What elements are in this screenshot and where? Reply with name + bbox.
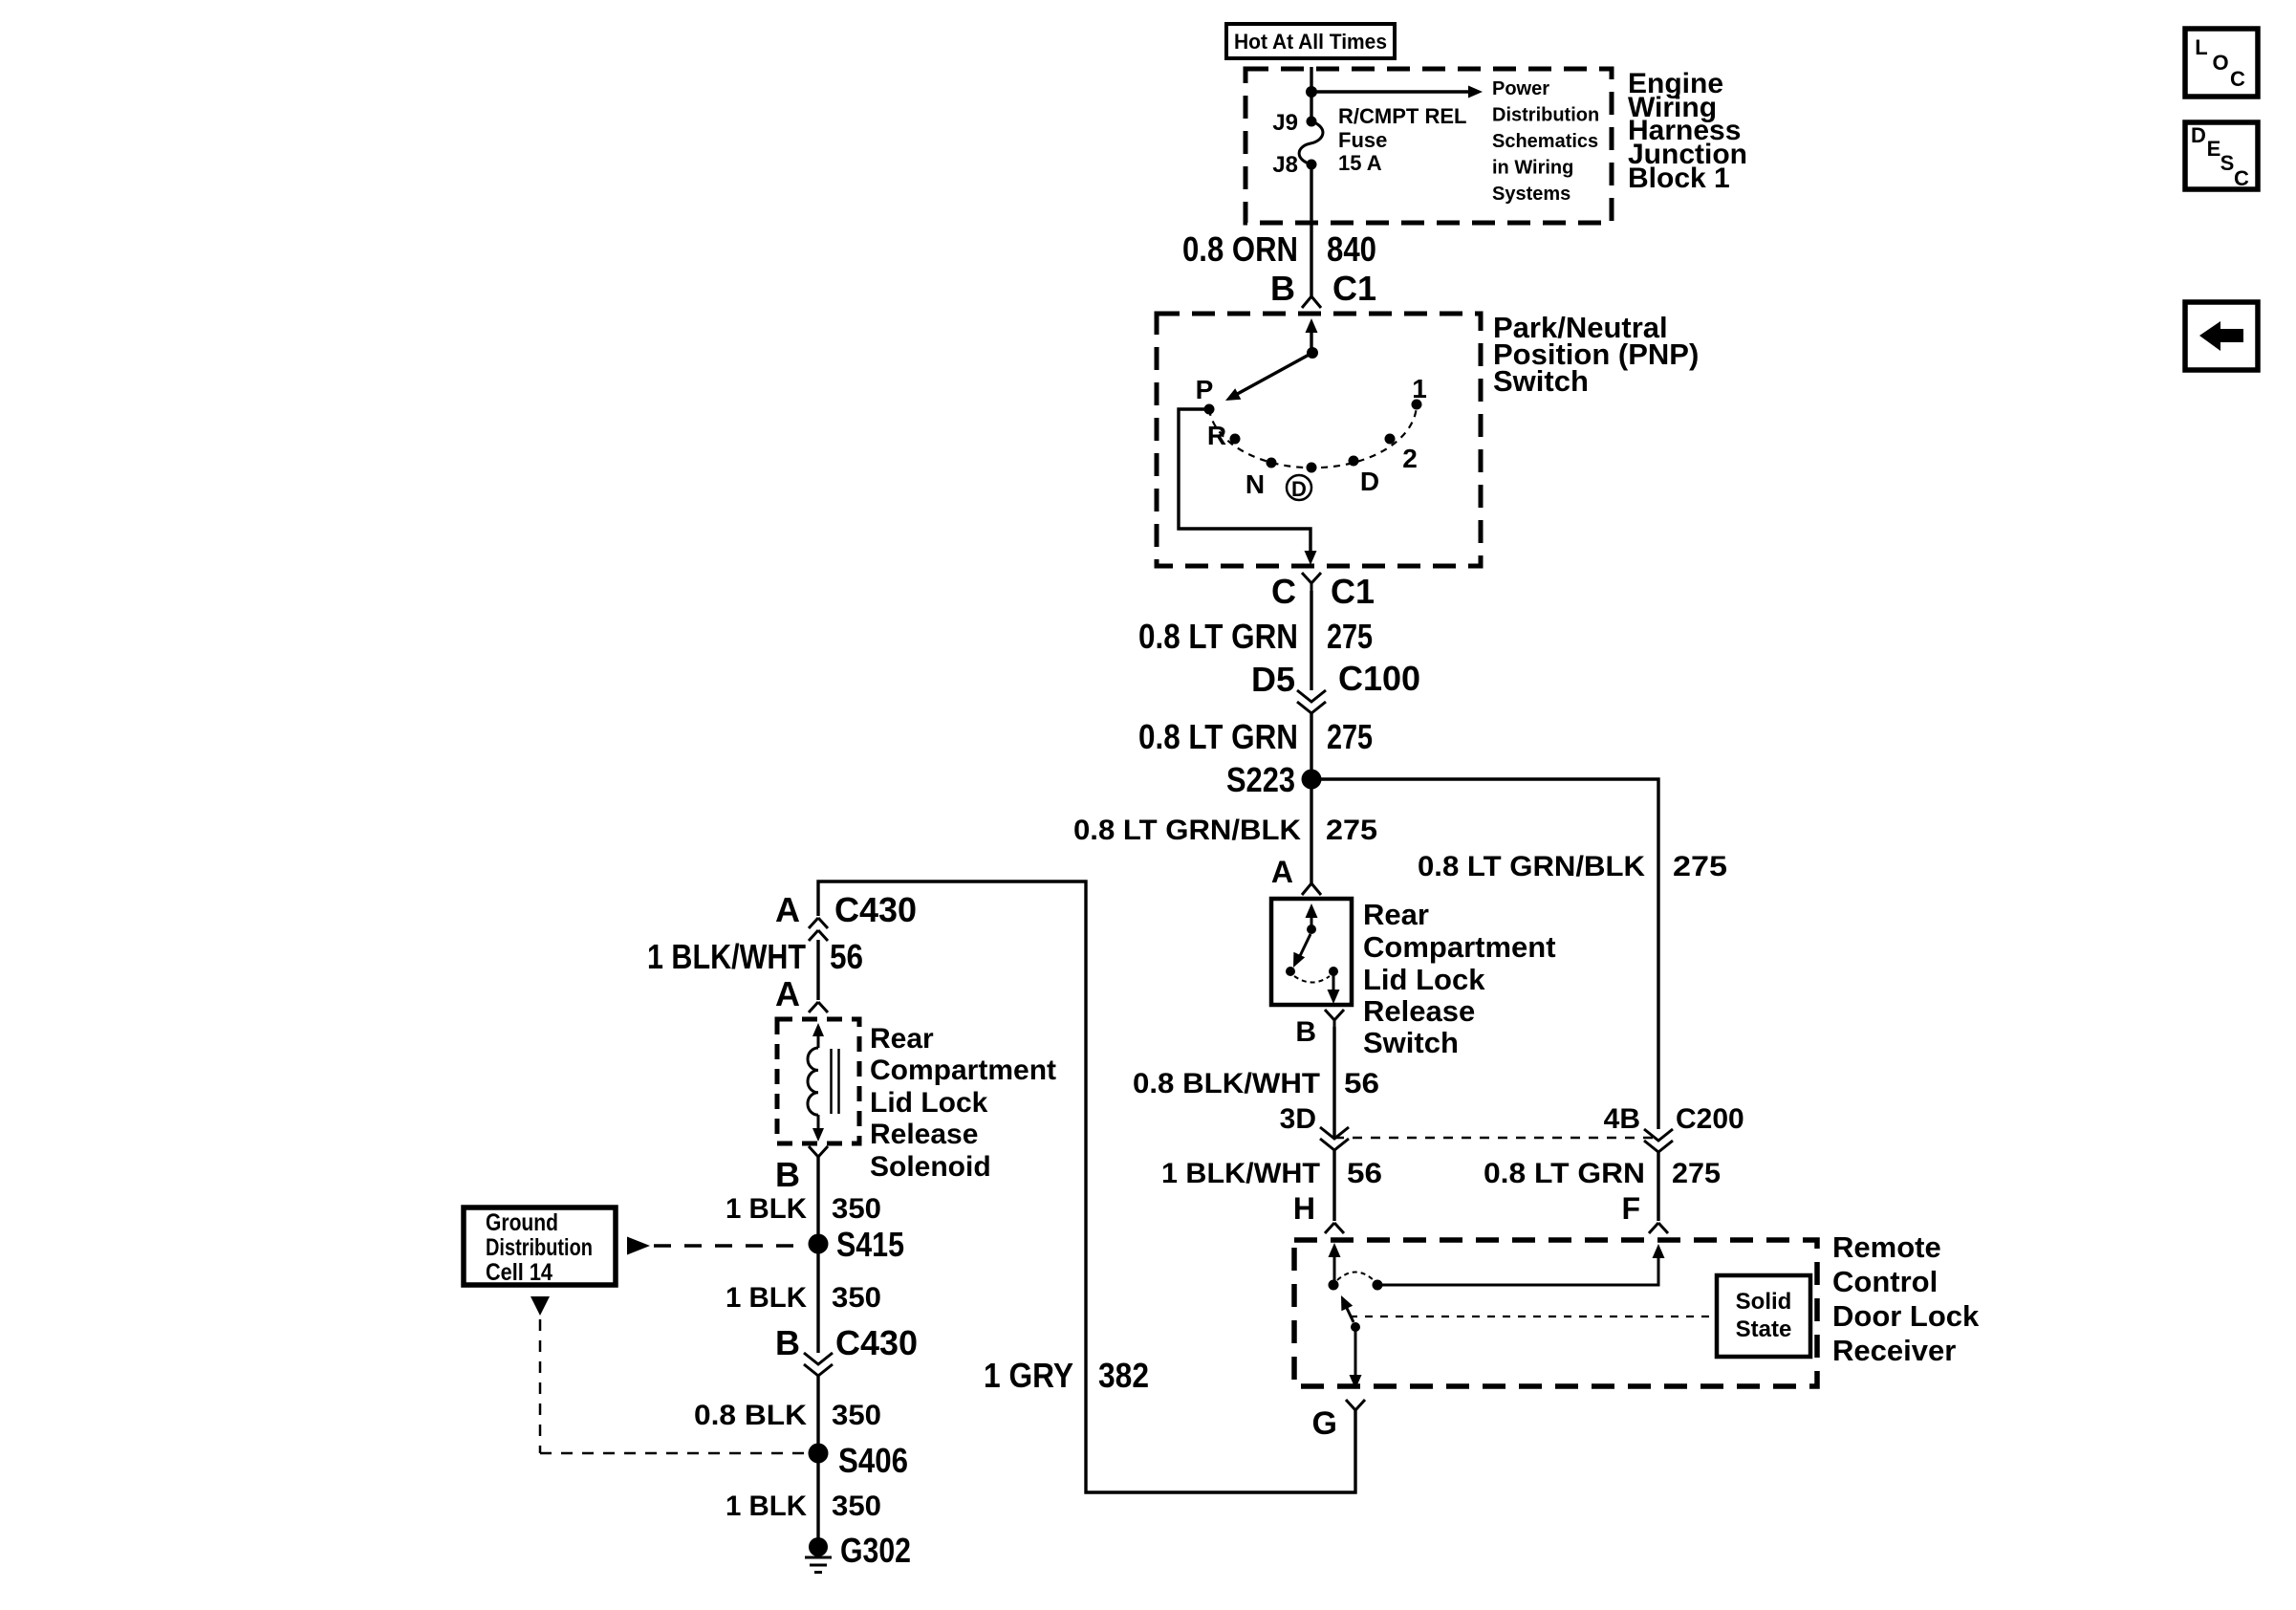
svg-text:4B: 4B [1604,1103,1640,1135]
receiver pin H connector caret [1325,1223,1334,1233]
svg-text:J8: J8 [1272,152,1298,178]
wire: S223 branch right and down to C200 pin 4B [1311,779,1658,1129]
svg-text:Hot At All Times: Hot At All Times [1234,30,1387,54]
circled D marker [1287,475,1311,500]
svg-text:State: State [1736,1316,1792,1342]
svg-text:275: 275 [1673,851,1727,882]
connector pin A (female, above release switch) [1302,883,1311,895]
svg-text:L: L [2195,35,2207,59]
svg-text:Solenoid: Solenoid [870,1151,991,1183]
terminal J8 dot [1307,160,1317,170]
svg-text:D: D [1291,477,1307,501]
svg-text:275: 275 [1327,717,1373,756]
svg-text:A: A [775,890,800,929]
ground distribution arrow right [627,1237,650,1255]
svg-text:56: 56 [1347,1158,1382,1189]
wire: solenoid B to S415 [816,1157,819,1244]
wire: fuse J8 down to connector C1 pin B [1310,164,1312,296]
switch common dot [1307,925,1316,934]
svg-text:Power: Power [1492,78,1549,99]
Rear Compartment Lid Lock Release Switch box [1271,899,1352,1005]
svg-text:1 BLK/WHT: 1 BLK/WHT [1161,1158,1320,1189]
svg-text:3D: 3D [1280,1103,1316,1135]
wire: C430 B to S406 [816,1376,819,1453]
svg-text:Lid Lock: Lid Lock [870,1087,988,1119]
solenoid core lines [830,1049,833,1114]
Park/Neutral Position (PNP) Switch dashed box [1157,314,1481,566]
svg-text:Release: Release [870,1119,978,1150]
svg-text:Switch: Switch [1493,364,1589,398]
svg-text:D5: D5 [1251,660,1295,699]
solenoid pin A connector caret [809,1002,818,1012]
receiver solid state dashed control line [1350,1316,1717,1317]
wire: feed into junction block [1310,67,1312,92]
solenoid entry arrow [812,1023,824,1036]
wire: 1 GRY 382 from G to solenoid feed loop [818,881,1355,1492]
svg-text:C: C [2230,67,2245,91]
wire: branch to power distribution reference [1311,90,1469,93]
connector C1 pin C (male half below PNP) [1302,573,1311,583]
svg-text:O: O [2212,51,2228,75]
svg-text:C430: C430 [834,890,917,929]
solenoid L1 coil [808,1048,818,1115]
svg-text:350: 350 [832,1193,881,1225]
wire: 4B to receiver pin F [1657,1152,1659,1221]
svg-text:Compartment: Compartment [870,1055,1056,1086]
svg-text:A: A [775,974,800,1013]
svg-text:Rear: Rear [870,1023,934,1055]
svg-text:B: B [775,1155,800,1194]
svg-text:0.8 ORN: 0.8 ORN [1182,229,1298,269]
wire: PNP to C100 [1310,591,1312,690]
switch contact dashed arc [1294,976,1330,983]
svg-text:B: B [775,1323,800,1362]
svg-text:Distribution: Distribution [486,1234,593,1261]
PNP contact D dot [1349,456,1359,467]
PNP contact arc (dashed) [1209,404,1417,468]
connector C200 pin 3D (double chevron) [1320,1127,1349,1139]
svg-text:Fuse: Fuse [1338,128,1387,152]
node: feed branch dot [1306,86,1317,98]
PNP wiper arm arrow to P contact [1232,353,1312,397]
Engine Wiring Harness Junction Block 1 dashed box [1245,69,1612,223]
ground distribution arrow down [531,1296,550,1316]
wire: branch dot to fuse terminal J9 [1310,92,1312,121]
svg-text:275: 275 [1326,815,1377,846]
svg-text:1 BLK: 1 BLK [726,1282,807,1314]
svg-text:Block 1: Block 1 [1628,163,1730,194]
svg-text:0.8 LT GRN/BLK: 0.8 LT GRN/BLK [1073,815,1301,846]
svg-text:1 GRY: 1 GRY [984,1356,1073,1395]
connector C100 pin D5 (in-line, double chevron) [1297,690,1326,702]
svg-text:Remote: Remote [1832,1230,1941,1264]
svg-text:Ground: Ground [486,1209,558,1236]
icon box LOC [2185,29,2258,97]
PNP wiper pivot dot [1307,347,1318,359]
wire: 3D to receiver pin H [1332,1150,1335,1221]
receiver pin F connector caret [1649,1223,1658,1233]
svg-text:G: G [1312,1405,1337,1442]
solenoid exit arrow [817,1115,820,1128]
svg-text:0.8 LT GRN/BLK: 0.8 LT GRN/BLK [1418,851,1645,882]
svg-text:1 BLK/WHT: 1 BLK/WHT [647,937,806,976]
svg-text:S223: S223 [1226,760,1295,799]
Rear Compartment Lid Lock Release Solenoid dashed box [777,1019,859,1143]
svg-text:350: 350 [832,1282,881,1314]
svg-text:1 BLK: 1 BLK [726,1193,807,1225]
Ground Distribution Cell 14 box [464,1207,616,1285]
svg-text:Cell 14: Cell 14 [486,1259,552,1286]
svg-text:0.8 LT GRN: 0.8 LT GRN [1138,617,1298,656]
icon box back-arrow [2185,302,2258,370]
svg-text:56: 56 [830,937,863,976]
receiver switch lever arrow [1345,1304,1354,1322]
switch exit wire and arrow [1332,971,1335,994]
connector C200 dashed link line [1334,1137,1658,1140]
svg-text:H: H [1293,1191,1315,1226]
svg-text:275: 275 [1672,1158,1721,1189]
svg-text:C430: C430 [835,1323,918,1362]
svg-text:1: 1 [1412,374,1427,403]
Remote Control Door Lock Receiver dashed box [1294,1240,1817,1386]
svg-text:C: C [1271,572,1296,611]
svg-text:G302: G302 [840,1531,911,1570]
svg-text:1 BLK: 1 BLK [726,1490,807,1522]
svg-text:0.8 LT GRN: 0.8 LT GRN [1484,1158,1645,1189]
connector C1 pin B (female half) [1302,296,1311,308]
svg-text:R: R [1207,421,1226,450]
dashed link: ground distribution to S406 [539,1319,542,1453]
wire: S415 to C430 pin B [816,1244,819,1353]
svg-text:C: C [2234,166,2249,190]
receiver relay contact dot (to F) [1373,1280,1383,1291]
PNP internal wire from P to exit [1179,409,1310,552]
icon box DESC [2185,122,2258,189]
svg-text:Lid Lock: Lid Lock [1363,963,1485,996]
connector pin B (male, below release switch) [1325,1010,1334,1020]
svg-text:E: E [2207,137,2221,161]
switch entry arrow [1306,903,1318,918]
PNP entry arrow (pin B side) [1306,318,1318,333]
svg-text:56: 56 [1344,1068,1379,1099]
svg-text:275: 275 [1327,617,1373,656]
wire: C430 to solenoid pin A [816,940,819,1000]
svg-text:S406: S406 [838,1441,908,1480]
svg-text:0.8 BLK: 0.8 BLK [694,1400,807,1431]
wire: S406 to ground G302 [816,1453,819,1547]
svg-text:D: D [1360,467,1379,496]
PNP contact mid dot (drive) [1307,463,1317,473]
fuse F: R/CMPT REL Fuse 15 A element (squiggle) [1299,121,1323,164]
wire: C100 to S223 [1310,713,1312,883]
PNP contact 2 dot [1385,434,1396,445]
PNP exit arrow [1305,551,1317,565]
splice S406 dot [809,1444,829,1464]
svg-text:N: N [1245,469,1265,499]
svg-text:15 A: 15 A [1338,151,1382,175]
splice S415 dot [809,1234,829,1254]
svg-text:P: P [1196,375,1214,404]
svg-text:C100: C100 [1338,659,1420,698]
svg-text:350: 350 [832,1400,881,1431]
svg-text:Schematics: Schematics [1492,131,1598,152]
PNP contact 1 dot [1412,400,1422,410]
svg-text:F: F [1621,1191,1640,1226]
svg-text:Solid: Solid [1736,1289,1792,1315]
ground G302 symbol [809,1537,828,1556]
svg-text:R/CMPT REL: R/CMPT REL [1338,104,1466,128]
svg-text:Control: Control [1832,1265,1938,1298]
receiver lever pivot dot [1351,1322,1360,1332]
svg-text:B: B [1295,1016,1316,1048]
svg-text:C1: C1 [1332,269,1376,308]
PNP contact P dot [1204,404,1215,415]
arrow to Power Distribution Schematics [1468,86,1483,98]
connector C200 pin 4B (double chevron) [1644,1129,1673,1141]
switch contact dot right [1329,967,1338,976]
connector C430 pin B (double chevron) [804,1353,833,1364]
svg-text:Distribution: Distribution [1492,105,1599,126]
svg-text:Switch: Switch [1363,1026,1459,1059]
svg-text:Receiver: Receiver [1832,1334,1956,1367]
PNP contact N dot [1267,458,1277,468]
svg-text:Rear: Rear [1363,898,1429,931]
svg-text:840: 840 [1327,229,1376,269]
Solid State box [1717,1275,1810,1357]
connector C430 pin A (double caret) [809,918,818,928]
svg-text:C1: C1 [1331,572,1375,611]
svg-text:A: A [1271,855,1293,889]
power feed label box: Hot At All Times [1226,24,1395,58]
svg-text:J9: J9 [1272,110,1298,136]
svg-text:B: B [1270,269,1295,308]
svg-text:S415: S415 [836,1225,904,1264]
svg-text:S: S [2220,151,2235,175]
receiver pin G connector (male Y below box) [1346,1400,1355,1410]
svg-text:C200: C200 [1676,1103,1744,1135]
PNP contact R dot [1230,434,1241,445]
svg-text:D: D [2191,123,2206,147]
svg-text:0.8 BLK/WHT: 0.8 BLK/WHT [1133,1068,1320,1099]
terminal J9 dot [1307,117,1317,127]
svg-text:in Wiring: in Wiring [1492,158,1573,179]
wire: switch B to connector C200 pin 3D [1332,1027,1335,1139]
switch contact dot left [1286,967,1295,976]
svg-text:Release: Release [1363,994,1475,1028]
receiver internal wire to F entry arrow [1377,1255,1658,1285]
receiver exit wire and arrow [1354,1327,1357,1377]
svg-text:Systems: Systems [1492,184,1570,205]
svg-text:0.8 LT GRN: 0.8 LT GRN [1138,717,1298,756]
switch lever arrow [1298,934,1310,960]
splice S223 dot [1302,770,1322,790]
svg-text:382: 382 [1098,1356,1149,1395]
dashed link: ground distribution to S415 [654,1244,806,1248]
svg-text:2: 2 [1402,444,1418,473]
receiver relay contact dot H side [1329,1280,1339,1291]
svg-text:Door Lock: Door Lock [1832,1299,1980,1333]
svg-text:Compartment: Compartment [1363,930,1556,964]
solenoid pin B connector (male Y) [809,1146,818,1157]
receiver H entry arrow [1329,1243,1341,1257]
svg-text:350: 350 [832,1490,881,1522]
receiver contact dashed arc [1337,1273,1374,1281]
